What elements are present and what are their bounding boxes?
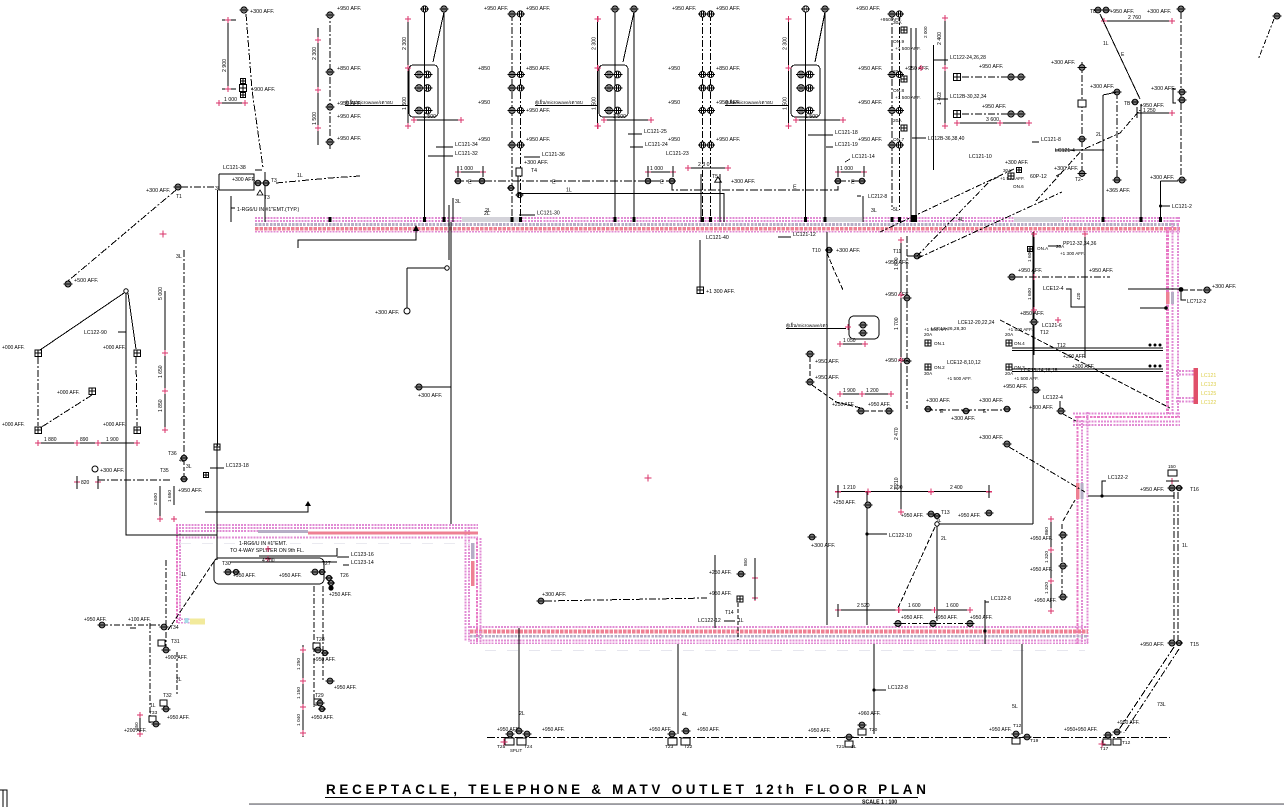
- svg-text:T20: T20: [869, 727, 878, 733]
- svg-text:SPLIT: SPLIT: [510, 748, 523, 753]
- svg-text:1L: 1L: [181, 572, 187, 578]
- riser x1181 right: [1150, 12, 1186, 183]
- svg-text:+300 AFF.: +300 AFF.: [811, 543, 835, 549]
- svg-text:1 000: 1 000: [840, 166, 853, 172]
- wire x1141 to wall: [1140, 104, 1142, 222]
- svg-text:1L: 1L: [150, 703, 156, 709]
- svg-text:+300 AFF.: +300 AFF.: [250, 9, 274, 15]
- svg-text:+950 AFF.: +950 AFF.: [858, 100, 882, 106]
- svg-text:1 000: 1 000: [224, 97, 237, 103]
- tel T33: [149, 710, 190, 727]
- svg-text:2L: 2L: [485, 208, 491, 214]
- wall left: [177, 524, 190, 624]
- svg-text:E: E: [793, 185, 797, 191]
- diagonals crossing wall center: [455, 176, 1062, 258]
- svg-text:+300 AFF.: +300 AFF.: [836, 248, 860, 254]
- red tick pair left: [160, 231, 167, 238]
- svg-text:T15: T15: [1190, 642, 1199, 648]
- tv outlet +900: [240, 79, 276, 98]
- svg-text:+300 AFF.: +300 AFF.: [1147, 9, 1171, 15]
- wall shaft protrusion right: [1176, 368, 1198, 404]
- svg-text:+900 AFF.: +900 AFF.: [165, 655, 188, 661]
- svg-text:+960 AFF.: +960 AFF.: [858, 711, 881, 717]
- wall ghost hatch segments on top wall: [462, 217, 1062, 222]
- dim col right interior: [1027, 231, 1037, 355]
- svg-text:3L: 3L: [186, 464, 192, 470]
- riser x1082 left of TB: [1032, 60, 1104, 183]
- svg-text:LC122-12: LC122-12: [698, 618, 721, 624]
- svg-text:ตู้เย็น/microwave/เตาอบ: ตู้เย็น/microwave/เตาอบ: [345, 98, 393, 106]
- svg-text:3L: 3L: [455, 199, 461, 205]
- label LC122-2 right: [1088, 475, 1174, 498]
- tel T34: [84, 617, 179, 631]
- svg-text:+300 AFF.: +300 AFF.: [979, 398, 1003, 404]
- duplex riser pair x703: [668, 6, 740, 218]
- svg-text:+950 AFF.: +950 AFF.: [279, 573, 302, 579]
- svg-text:+950 AFF.: +950 AFF.: [982, 104, 1006, 110]
- wire diagonal 73L: [1118, 647, 1179, 733]
- svg-text:TB: TB: [1124, 101, 1131, 107]
- svg-text:+950: +950: [668, 66, 680, 72]
- tel head-end T3 box: [219, 165, 360, 201]
- wire x1162 to wall: [1159, 181, 1192, 222]
- svg-text:LC121-4: LC121-4: [1055, 148, 1075, 154]
- wire 1L horizontal: [519, 174, 724, 222]
- svg-text:1L: 1L: [566, 188, 572, 194]
- tel TB top: [1090, 6, 1185, 15]
- svg-text:LCE12-8,10,12: LCE12-8,10,12: [947, 360, 981, 366]
- svg-text:LC123: LC123: [1201, 382, 1216, 388]
- svg-text:T1: T1: [176, 194, 182, 200]
- wire 4L drop: [649, 644, 720, 750]
- svg-text:+500 AFF.: +500 AFF.: [74, 278, 98, 284]
- microwave box interior: [786, 316, 879, 347]
- svg-text:LC125: LC125: [1201, 391, 1216, 397]
- svg-text:2 300: 2 300: [402, 37, 408, 50]
- svg-text:1-RG6/U IN #1"EMT.: 1-RG6/U IN #1"EMT.: [239, 541, 287, 547]
- dimension 1 000 below R1: [216, 97, 248, 106]
- svg-text:+200 AFF.: +200 AFF.: [124, 728, 147, 734]
- svg-text:850: 850: [743, 558, 748, 566]
- svg-text:T14: T14: [725, 610, 734, 616]
- dimension col x318: [312, 28, 321, 145]
- receptacle far top-right corner: [1258, 13, 1281, 60]
- title text: [326, 782, 930, 797]
- label 60P-12: [1030, 173, 1062, 180]
- svg-text:LC122: LC122: [1201, 400, 1216, 406]
- tv outlet 150 right: [1166, 464, 1179, 484]
- svg-text:1 850: 1 850: [158, 399, 164, 412]
- svg-text:+300 AFF.: +300 AFF.: [926, 398, 950, 404]
- svg-text:LC121-32: LC121-32: [455, 151, 478, 157]
- wire vertical x1085: [1082, 231, 1088, 358]
- svg-text:+950 AFF.: +950 AFF.: [1003, 384, 1027, 390]
- receptacle T1: [146, 184, 221, 200]
- svg-text:T2: T2: [1075, 177, 1081, 183]
- label LC122-8 drop: [872, 644, 908, 734]
- svg-text:+300 AFF.: +300 AFF.: [1072, 364, 1095, 370]
- svg-text:+300 AFF.: +300 AFF.: [542, 592, 566, 598]
- svg-text:LC122-4: LC122-4: [1043, 395, 1063, 401]
- svg-text:+850: +850: [478, 66, 490, 72]
- breaker cluster ON.1..ON.4: [924, 320, 1058, 381]
- svg-text:LC121-10: LC121-10: [969, 154, 992, 160]
- svg-text:E: E: [940, 409, 944, 415]
- svg-text:+300 AFF.: +300 AFF.: [731, 179, 755, 185]
- tel outlet T5: [712, 174, 755, 185]
- svg-text:ตู้เย็น/microwave/เตาอบ: ตู้เย็น/microwave/เตาอบ: [535, 98, 583, 106]
- receptacle R1 top-left riser: [240, 7, 275, 168]
- svg-text:+300 AFF.: +300 AFF.: [146, 188, 170, 194]
- dim row left 1880/890/1900: [35, 437, 140, 446]
- svg-text:2 400: 2 400: [937, 32, 943, 45]
- svg-text:LC?12-2: LC?12-2: [1187, 299, 1206, 305]
- svg-text:+950 AFF.: +950 AFF.: [497, 727, 520, 733]
- svg-text:T17: T17: [1100, 746, 1109, 752]
- svg-text:ON.2: ON.2: [934, 365, 945, 370]
- svg-text:+850 AFF.: +850 AFF.: [337, 66, 361, 72]
- svg-text:+250 AFF.: +250 AFF.: [709, 570, 732, 576]
- svg-text:+950 AFF.: +950 AFF.: [716, 6, 740, 12]
- svg-text:LC121: LC121: [1201, 373, 1216, 379]
- tel T16: [1140, 485, 1199, 493]
- svg-text:3 600: 3 600: [986, 117, 999, 123]
- svg-text:+950: +950: [668, 100, 680, 106]
- svg-text:+950 AFF.: +950 AFF.: [1018, 268, 1042, 274]
- riser x715 bottom: [698, 555, 758, 640]
- svg-text:+300 AFF.: +300 AFF.: [951, 416, 975, 422]
- wire vertical x1033: [1032, 232, 1034, 524]
- svg-text:+850 AFF.: +850 AFF.: [716, 66, 740, 72]
- svg-text:1 880: 1 880: [44, 437, 57, 443]
- svg-text:1 600: 1 600: [946, 603, 959, 609]
- tel cluster T20/T21: [808, 711, 881, 750]
- wall step vertical left: [466, 524, 481, 642]
- wall mid bottom (left section): [176, 525, 478, 538]
- svg-text:3L: 3L: [871, 208, 877, 214]
- wire to wall stub 289: [1128, 284, 1236, 305]
- svg-text:LC121-24: LC121-24: [645, 142, 668, 148]
- dims 1900 1200: [837, 388, 894, 397]
- receptacle row bottom wall: [894, 615, 993, 627]
- svg-text:ON.A: ON.A: [1037, 246, 1049, 251]
- wire drops to wall left-center: [449, 198, 560, 260]
- svg-text:+950 AFF.: +950 AFF.: [311, 715, 334, 721]
- label LC122-90: [84, 330, 126, 336]
- svg-text:+300 AFF.: +300 AFF.: [1051, 60, 1075, 66]
- svg-text:+1 500 AFF.: +1 500 AFF.: [1008, 327, 1033, 332]
- svg-text:+850 AFF.: +850 AFF.: [526, 66, 550, 72]
- svg-text:+950 AFF.: +950 AFF.: [1089, 268, 1113, 274]
- duplex riser pair x892: [856, 6, 929, 210]
- svg-text:1 650: 1 650: [167, 490, 173, 502]
- svg-text:+950 AFF.: +950 AFF.: [901, 615, 924, 621]
- label LC122-10: [865, 532, 911, 539]
- svg-text:1 320: 1 320: [1044, 551, 1050, 563]
- svg-text:1 500: 1 500: [613, 114, 626, 120]
- svg-text:2 300: 2 300: [783, 37, 789, 50]
- svg-text:+950 AFF.: +950 AFF.: [334, 685, 357, 691]
- svg-text:+950 AFF.: +950 AFF.: [880, 17, 902, 23]
- svg-text:+950 AFF.: +950 AFF.: [697, 727, 720, 733]
- svg-text:4L: 4L: [682, 712, 688, 718]
- svg-text:T31: T31: [171, 639, 180, 645]
- wire 3L vertical: [176, 250, 184, 460]
- svg-text:1 600: 1 600: [908, 603, 921, 609]
- svg-text:LC121-18: LC121-18: [835, 130, 858, 136]
- label LC121-10: [969, 154, 1029, 189]
- svg-text:1 500: 1 500: [805, 114, 818, 120]
- svg-text:1 320: 1 320: [1044, 582, 1050, 594]
- svg-text:+950 AFF.: +950 AFF.: [84, 617, 107, 623]
- svg-text:E: E: [983, 409, 987, 415]
- drawing border corner bottom-left: [0, 790, 7, 807]
- svg-text:+250 AFF.: +250 AFF.: [329, 592, 352, 598]
- receptacles left of center: [806, 351, 861, 408]
- svg-text:+1 300 AFF.: +1 300 AFF.: [706, 289, 735, 295]
- svg-text:1 500: 1 500: [423, 114, 436, 120]
- svg-text:+950 AFF.: +950 AFF.: [1140, 642, 1164, 648]
- tel main run bottom: [487, 737, 1170, 739]
- interior riser x1062: [1030, 500, 1075, 614]
- svg-text:1L: 1L: [851, 744, 857, 750]
- svg-text:+1 300 AFF.: +1 300 AFF.: [1060, 251, 1085, 256]
- red plus mid: [645, 475, 652, 482]
- svg-text:1 500: 1 500: [783, 97, 789, 110]
- svg-text:LC122-90: LC122-90: [84, 330, 107, 336]
- svg-text:1 700: 1 700: [894, 317, 900, 330]
- svg-text:4 200: 4 200: [262, 558, 275, 564]
- wire vertical x827: [826, 232, 828, 625]
- wall step horizontal right: [1073, 414, 1180, 426]
- svg-text:2L: 2L: [941, 536, 947, 542]
- svg-text:T30: T30: [222, 561, 231, 567]
- tel box T30/T27 cluster: [181, 546, 352, 598]
- svg-text:+100 AFF.: +100 AFF.: [128, 617, 151, 623]
- svg-text:+300 AFF.: +300 AFF.: [1212, 284, 1236, 290]
- svg-text:+1 500 AFF.: +1 500 AFF.: [895, 95, 921, 101]
- receptacle cluster group B (x615): [535, 6, 654, 222]
- svg-text:+950 AFF.: +950 AFF.: [542, 727, 565, 733]
- svg-text:E: E: [660, 180, 664, 186]
- svg-text:+950 AFF.: +950 AFF.: [885, 358, 909, 364]
- wire vertical x867: [866, 492, 868, 625]
- svg-text:+250 AFF.: +250 AFF.: [832, 402, 855, 408]
- svg-text:+950 AFF.: +950 AFF.: [1030, 536, 1053, 542]
- svg-text:2 900: 2 900: [222, 59, 228, 72]
- wall end markers (cyan+yellow highlight): [185, 618, 206, 625]
- faint column grid dashes: [180, 544, 1085, 651]
- svg-text:ON.8: ON.8: [893, 88, 905, 94]
- svg-text:+300 AFF.: +300 AFF.: [524, 160, 548, 166]
- svg-text:+950 AFF.: +950 AFF.: [167, 715, 190, 721]
- receptacle +300 left stub: [808, 534, 836, 549]
- svg-text:LC121-8: LC121-8: [1041, 137, 1061, 143]
- svg-text:LC123-14: LC123-14: [351, 560, 374, 566]
- label LC122-4 at step corner: [1029, 395, 1076, 421]
- labels LC121 leaders left cluster: [428, 142, 478, 157]
- wall right lower: [1076, 412, 1088, 644]
- svg-text:2L: 2L: [519, 711, 525, 717]
- svg-text:LC121-2: LC121-2: [1172, 204, 1192, 210]
- svg-text:20A: 20A: [893, 118, 902, 124]
- svg-text:420: 420: [1076, 292, 1081, 300]
- svg-text:+1 500 AFF.: +1 500 AFF.: [895, 46, 921, 52]
- svg-text:20A: 20A: [1005, 332, 1014, 337]
- labels LC123-16/14: [337, 552, 374, 566]
- svg-text:+950 AFF.: +950 AFF.: [1034, 598, 1057, 604]
- svg-text:1 250: 1 250: [296, 658, 302, 670]
- svg-text:LCE12-4: LCE12-4: [1043, 286, 1064, 292]
- svg-text:1 200: 1 200: [866, 388, 879, 394]
- dim col bottom center: [296, 645, 306, 737]
- svg-text:LC12B-30,32,34: LC12B-30,32,34: [950, 94, 987, 100]
- wire diagonal 2L right: [1036, 110, 1140, 201]
- svg-text:+300 AFF.: +300 AFF.: [232, 177, 256, 183]
- svg-text:1 000: 1 000: [650, 166, 663, 172]
- svg-text:+950 AFF.: +950 AFF.: [1140, 487, 1164, 493]
- svg-text:E: E: [552, 180, 556, 186]
- svg-text:+365 AFF.: +365 AFF.: [1106, 188, 1130, 194]
- labels LC121-25/24/23: [628, 129, 689, 157]
- svg-text:20A: 20A: [893, 69, 902, 75]
- svg-text:T35: T35: [160, 468, 169, 474]
- svg-text:2 300: 2 300: [592, 37, 598, 50]
- svg-text:ON.1: ON.1: [934, 341, 945, 346]
- tv outlet grid left: [2, 345, 140, 433]
- svg-text:1 600: 1 600: [1027, 250, 1033, 262]
- wire left drop to T30: [214, 444, 220, 560]
- svg-text:+300 AFF.: +300 AFF.: [418, 393, 442, 399]
- svg-text:T16: T16: [1190, 487, 1199, 493]
- svg-text:+950 AFF.: +950 AFF.: [337, 114, 361, 120]
- svg-text:T19: T19: [1030, 738, 1039, 744]
- svg-text:2 400: 2 400: [950, 485, 963, 491]
- svg-text:+950 AFF.: +950 AFF.: [709, 591, 732, 597]
- tel T13 row: [901, 510, 1033, 542]
- svg-text:T21: T21: [836, 744, 845, 750]
- svg-text:LC121-14: LC121-14: [852, 154, 875, 160]
- wire LCE12-8 drop top: [857, 194, 887, 222]
- svg-text:E: E: [851, 180, 855, 186]
- svg-text:+000 AFF.: +000 AFF.: [103, 345, 126, 351]
- svg-text:T33: T33: [149, 710, 158, 716]
- svg-text:150: 150: [1168, 464, 1176, 469]
- svg-text:+950 AFF.: +950 AFF.: [484, 6, 508, 12]
- svg-text:LC122-8: LC122-8: [991, 596, 1011, 602]
- wire 5L drop: [989, 644, 1075, 744]
- svg-text:T12: T12: [1057, 343, 1066, 349]
- wall right upper: [1166, 217, 1178, 417]
- svg-text:1 000: 1 000: [460, 166, 473, 172]
- svg-text:+950 AFF.: +950 AFF.: [905, 66, 929, 72]
- svg-text:+1 500 AFF.: +1 500 AFF.: [1014, 376, 1039, 381]
- svg-text:+300 AFF.: +300 AFF.: [1005, 160, 1029, 166]
- receptacle +950 below cluster: [1003, 384, 1040, 393]
- receptacle cluster group C (x805): [725, 6, 846, 222]
- svg-text:+950 AFF.: +950 AFF.: [526, 6, 550, 12]
- svg-text:+300 AFF.: +300 AFF.: [375, 310, 399, 316]
- svg-text:LC121-40: LC121-40: [706, 235, 729, 241]
- shaft labels (yellow): [1201, 373, 1216, 406]
- wire with arrow below wall: [298, 225, 419, 248]
- svg-text:4L: 4L: [958, 217, 964, 223]
- svg-text:LC121-23: LC121-23: [666, 151, 689, 157]
- svg-text:LCE12-20,22,24: LCE12-20,22,24: [958, 320, 995, 326]
- splitter callout: [205, 501, 337, 564]
- svg-text:LC121-34: LC121-34: [455, 142, 478, 148]
- title underline: [325, 797, 918, 799]
- svg-text:+950 AFF.: +950 AFF.: [526, 108, 550, 114]
- wall top (exterior, hatched): [255, 218, 1180, 232]
- duplex riser pair x512: [478, 6, 550, 218]
- wire vertical B x217: [217, 172, 265, 446]
- svg-text:LC121-25: LC121-25: [644, 129, 667, 135]
- svg-text:T22: T22: [684, 744, 693, 750]
- wall bottom: [470, 627, 1088, 643]
- svg-text:+950 AFF.: +950 AFF.: [935, 615, 958, 621]
- svg-text:+000 AFF.: +000 AFF.: [2, 345, 25, 351]
- scale label: [862, 800, 897, 806]
- svg-text:T26: T26: [340, 573, 349, 579]
- svg-text:2 000: 2 000: [923, 26, 928, 38]
- svg-text:+950 AFF.: +950 AFF.: [337, 136, 361, 142]
- svg-text:LC121-12: LC121-12: [793, 232, 816, 238]
- tel T32: [150, 693, 172, 712]
- label LC121-36: [524, 152, 565, 158]
- svg-text:LC121-6: LC121-6: [1042, 323, 1062, 329]
- svg-text:+950 AFF.: +950 AFF.: [716, 100, 740, 106]
- labels LC121-18/19/14: [808, 130, 875, 162]
- svg-text:+950 AFF.: +950 AFF.: [901, 513, 924, 519]
- dim row 1210/2690/2400: [835, 485, 992, 498]
- tel chain T28: [311, 586, 357, 721]
- label LC121-12: [778, 232, 816, 238]
- svg-text:+950 AFF.: +950 AFF.: [970, 615, 993, 621]
- svg-text:5 000: 5 000: [158, 287, 164, 300]
- svg-text:T12: T12: [1040, 330, 1049, 336]
- svg-text:ON.6: ON.6: [1013, 184, 1024, 189]
- svg-text:LC121-36: LC121-36: [542, 152, 565, 158]
- svg-text:T29: T29: [315, 693, 324, 699]
- svg-text:1L: 1L: [1182, 543, 1188, 549]
- tel E line center: [924, 398, 1011, 422]
- svg-text:+950 AFF.: +950 AFF.: [858, 66, 882, 72]
- svg-text:T32: T32: [163, 693, 172, 699]
- svg-text:T34: T34: [170, 625, 179, 631]
- svg-text:2 470: 2 470: [894, 427, 900, 440]
- tel riser bottom-left chain: [150, 560, 166, 723]
- svg-text:+000 AFF.: +000 AFF.: [2, 422, 25, 428]
- label LC123-18: [204, 463, 249, 478]
- svg-text:1 600: 1 600: [1027, 288, 1033, 300]
- svg-text:T10: T10: [812, 248, 821, 254]
- svg-text:+300 AFF.: +300 AFF.: [979, 435, 1003, 441]
- svg-text:+300 AFF.: +300 AFF.: [1029, 405, 1053, 411]
- svg-text:LC122-2: LC122-2: [1108, 475, 1128, 481]
- svg-text:+950 AFF.: +950 AFF.: [885, 292, 909, 298]
- title block rule: [249, 803, 1284, 806]
- svg-text:T24: T24: [524, 744, 533, 750]
- svg-text:2 600: 2 600: [153, 493, 159, 505]
- svg-text:LC212-8: LC212-8: [868, 194, 887, 200]
- receptacle cluster group A (x425): [345, 6, 464, 222]
- svg-text:1 800: 1 800: [894, 257, 900, 270]
- svg-text:2 300: 2 300: [312, 47, 318, 60]
- label LC121-6: [1042, 323, 1062, 329]
- node stub +300: [375, 266, 449, 316]
- svg-text:+950 AFF.: +950 AFF.: [178, 488, 202, 494]
